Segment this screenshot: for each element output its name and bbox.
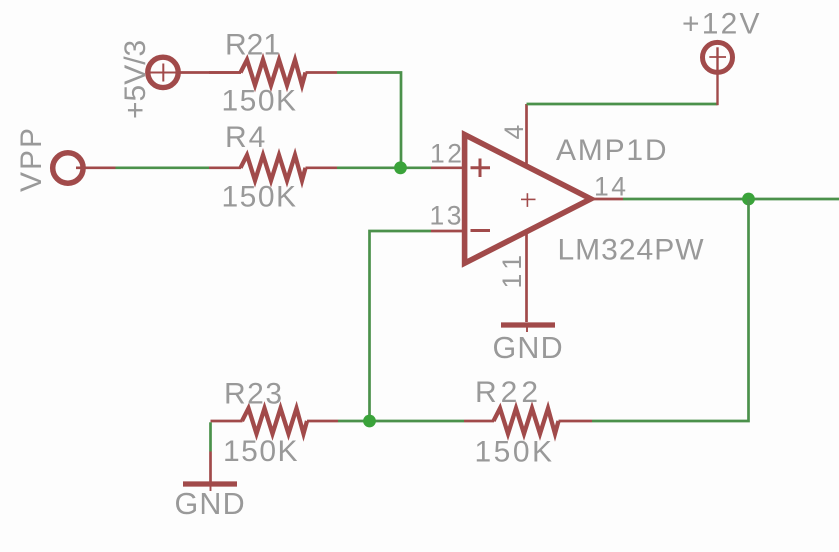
wire R21 output to junction (green) <box>337 73 401 168</box>
label R21 <box>225 29 280 62</box>
label AMP1D <box>556 134 668 167</box>
pin 12 lead (red) <box>431 166 464 169</box>
supply symbol +12V <box>703 42 733 72</box>
label LM324PW <box>558 234 705 267</box>
svg-text:13: 13 <box>430 201 464 231</box>
value 150K (R4) <box>222 181 298 214</box>
wire output net (green) <box>623 198 839 201</box>
label GND (pin 11) <box>493 331 564 365</box>
svg-text:150K: 150K <box>222 181 298 214</box>
svg-text:+12V: +12V <box>682 8 762 41</box>
svg-text:14: 14 <box>594 172 628 202</box>
ground GND at pin 11 <box>501 325 555 332</box>
svg-text:4: 4 <box>499 125 529 140</box>
resistor R4 <box>209 155 337 180</box>
value 150K (R22) <box>475 436 555 469</box>
svg-text:11: 11 <box>497 249 527 289</box>
label R4 <box>225 121 267 154</box>
svg-text:+5V/3: +5V/3 <box>119 40 152 119</box>
svg-text:R23: R23 <box>224 378 284 411</box>
value 150K (R23) <box>223 435 299 468</box>
pin stub +12V (red) <box>716 47 718 105</box>
pin number 4 <box>499 125 529 140</box>
wire R23 to R22 (green) <box>338 420 464 423</box>
resistor R22 <box>464 408 592 433</box>
svg-text:VPP: VPP <box>15 126 48 192</box>
pin number 14 <box>594 172 628 202</box>
wire output down to R22 (green) <box>592 199 749 421</box>
op-amp inverting - mark <box>471 229 491 232</box>
svg-text:R4: R4 <box>225 121 267 154</box>
label +5V/3 <box>119 40 152 119</box>
svg-text:12: 12 <box>430 138 464 168</box>
label +12V <box>682 8 762 41</box>
svg-text:LM324PW: LM324PW <box>558 234 705 267</box>
label GND (R23) <box>175 487 246 521</box>
ground pin lead (red) <box>209 452 212 483</box>
resistor R23 <box>211 408 339 433</box>
label R23 <box>224 378 284 411</box>
ground GND at R23 <box>183 484 237 491</box>
svg-text:150K: 150K <box>475 436 555 469</box>
label VPP <box>15 126 48 192</box>
svg-text:150K: 150K <box>222 85 298 118</box>
resistor R21 <box>209 60 337 85</box>
wire R23 down to ground (green upper part) <box>209 422 212 451</box>
value 150K (R21) <box>222 85 298 118</box>
pin 13 lead (red) <box>431 230 464 233</box>
label R22 <box>475 376 542 409</box>
svg-text:AMP1D: AMP1D <box>556 134 668 167</box>
pin number 11 <box>497 249 527 289</box>
op-amp noninverting + mark <box>471 159 491 178</box>
pin 4 lead (red, V+) <box>525 104 528 166</box>
pin number 13 <box>430 201 464 231</box>
junction at feedback node <box>363 415 376 428</box>
svg-text:GND: GND <box>175 487 246 521</box>
wire VPP to R4 (green) <box>116 166 210 169</box>
pin number 12 <box>430 138 464 168</box>
junction at R21/R4 node <box>394 161 407 174</box>
wire +5V/3 to R21 (red pin leads) <box>177 71 241 74</box>
wire pin4 to +12V (green) <box>527 103 718 106</box>
wire R4 to op-amp pin 12 (green) <box>337 166 431 169</box>
svg-text:150K: 150K <box>223 435 299 468</box>
pin stub VPP (red) <box>76 166 116 169</box>
svg-text:R21: R21 <box>225 29 280 62</box>
wire feedback to pin 13 (green) <box>370 231 432 421</box>
junction at output <box>742 193 755 206</box>
svg-text:GND: GND <box>493 331 564 365</box>
op-amp center + mark <box>521 193 536 207</box>
port VPP <box>53 153 83 183</box>
op-amp U1 triangle <box>465 135 591 264</box>
pin 14 lead (red, output) <box>592 198 623 201</box>
supply symbol +5V/3 <box>148 57 178 87</box>
svg-text:R22: R22 <box>475 376 542 409</box>
pin 11 lead (red, V-) <box>525 232 528 322</box>
